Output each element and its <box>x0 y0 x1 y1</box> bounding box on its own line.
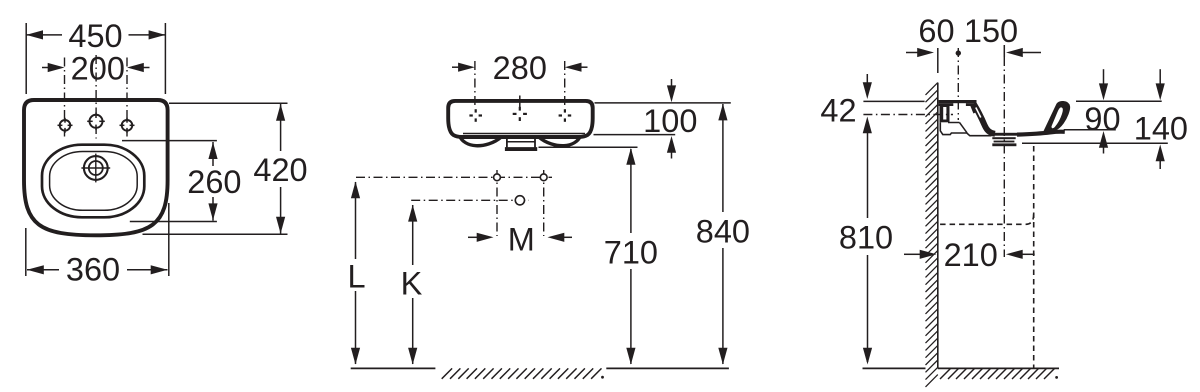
svg-text:210: 210 <box>944 237 998 273</box>
svg-text:140: 140 <box>1134 110 1188 146</box>
svg-text:100: 100 <box>643 103 697 139</box>
svg-text:60: 60 <box>918 13 954 49</box>
svg-text:L: L <box>347 258 365 294</box>
svg-text:710: 710 <box>604 234 658 270</box>
svg-text:90: 90 <box>1084 101 1120 137</box>
svg-text:M: M <box>508 221 535 257</box>
svg-text:150: 150 <box>964 13 1018 49</box>
svg-text:200: 200 <box>71 50 125 86</box>
svg-text:280: 280 <box>493 50 547 86</box>
svg-text:450: 450 <box>68 18 122 54</box>
svg-text:420: 420 <box>253 152 307 188</box>
svg-text:260: 260 <box>187 164 241 200</box>
svg-text:840: 840 <box>696 213 750 249</box>
svg-text:K: K <box>401 266 423 302</box>
svg-text:810: 810 <box>839 219 893 255</box>
svg-text:42: 42 <box>820 92 856 128</box>
svg-text:360: 360 <box>66 251 120 287</box>
